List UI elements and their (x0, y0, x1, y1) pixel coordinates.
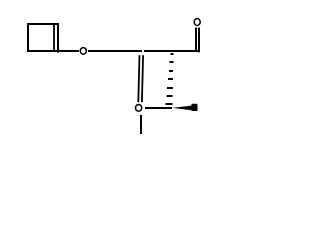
hashed wedge bond hash 2 (170, 61, 174, 63)
hashed wedge bond hash 1 (171, 53, 174, 55)
atom O3 (methoxy oxygen) (136, 105, 142, 112)
hashed wedge bond hash 3 (169, 70, 173, 72)
cyclobutene C1=C2 double bond inner line (53, 25, 55, 50)
solid wedge bond C4-CH3 taper (172, 106, 191, 111)
solid wedge bond end cap (191, 104, 197, 111)
hashed wedge bond hash 5 (167, 87, 173, 89)
atom O2 (aldehyde oxygen) (194, 19, 200, 26)
aldehyde C5=O2 double bond outer line (198, 28, 200, 53)
C3=O3 vertical double bond right line (142, 55, 143, 102)
hashed wedge bond hash 7 (166, 103, 173, 105)
bond C3-C5 chain segment (144, 50, 200, 52)
hashed wedge bond hash 4 (168, 78, 173, 80)
cyclobutene ring top edge (27, 23, 59, 25)
cyclobutene ring bottom edge continuing as bond C1-O1 (27, 50, 79, 52)
atom O1 (enol ether oxygen) (80, 48, 86, 55)
aldehyde C5=O2 double bond inner line (195, 28, 197, 50)
cyclobutene ring left edge (27, 23, 29, 52)
bond O3-C4 (145, 107, 172, 109)
hashed wedge bond hash 6 (167, 95, 173, 97)
cyclobutene ring right edge (outer line of ring C1=C2 double bond) (57, 23, 59, 53)
C3=O3 vertical double bond left line (138, 55, 139, 102)
bond O1-C3 (88, 50, 142, 52)
bond O3-CH3 methyl stub (140, 115, 142, 134)
